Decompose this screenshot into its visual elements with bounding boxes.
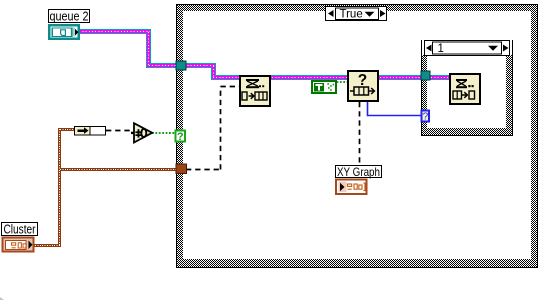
inner case structure 1: borders	[421, 40, 513, 136]
node: Flush Queue (outer)	[240, 76, 270, 106]
svg-text:?: ?	[423, 112, 429, 123]
Cluster control terminal	[3, 238, 34, 252]
wire: dashed black from brown tunnel to Flush Queue node	[186, 87, 239, 170]
Cluster label	[2, 223, 38, 237]
svg-text:XY Graph: XY Graph	[337, 165, 380, 179]
node: unbundle / index with arrow	[75, 127, 106, 136]
node: Dequeue Element (inner)	[450, 74, 480, 104]
XY Graph indicator terminal	[336, 180, 367, 195]
boolean constant T	[312, 81, 336, 93]
node: Get Queue Status ?	[348, 71, 378, 101]
svg-text:True: True	[340, 8, 363, 20]
wire: dashed black from unbundle node to not-equal-zero node	[106, 130, 131, 132]
tunnel: blue ? selector of inner structure	[422, 111, 430, 123]
svg-text:queue 2: queue 2	[50, 9, 89, 24]
selector label 1 of inner structure	[425, 41, 510, 56]
wire: green boolean dotted from T constant to queue-status node	[337, 81, 348, 83]
case selector terminal green ?	[176, 131, 186, 144]
svg-text:?: ?	[177, 131, 184, 143]
wire: cluster wire (brown dotted)	[34, 128, 178, 247]
queue 2 label	[49, 9, 90, 24]
tunnel: teal on inner structure left border	[421, 71, 430, 80]
wire: green boolean dotted from not-equal-zero to case selector	[152, 132, 176, 134]
corner smudge	[0, 297, 4, 300]
case structure True: outer border	[176, 4, 538, 268]
node: not equal to zero? triangle	[131, 123, 152, 142]
selector label True of case structure	[326, 7, 387, 21]
wire: queue wire from queue 2 control (teal edged magenta)	[75, 29, 451, 80]
XY Graph label	[336, 165, 382, 179]
svg-text:Cluster: Cluster	[4, 223, 36, 237]
wire: dashed black from queue-status node down to XY Graph	[359, 102, 361, 164]
wire: blue integer wire to inner selector tunnel	[368, 102, 423, 116]
tunnel: brown cluster tunnel on case left border	[176, 164, 187, 174]
tunnel: teal on outer case left border	[176, 61, 186, 70]
svg-text:1: 1	[438, 43, 444, 55]
queue 2 control terminal	[48, 24, 80, 40]
